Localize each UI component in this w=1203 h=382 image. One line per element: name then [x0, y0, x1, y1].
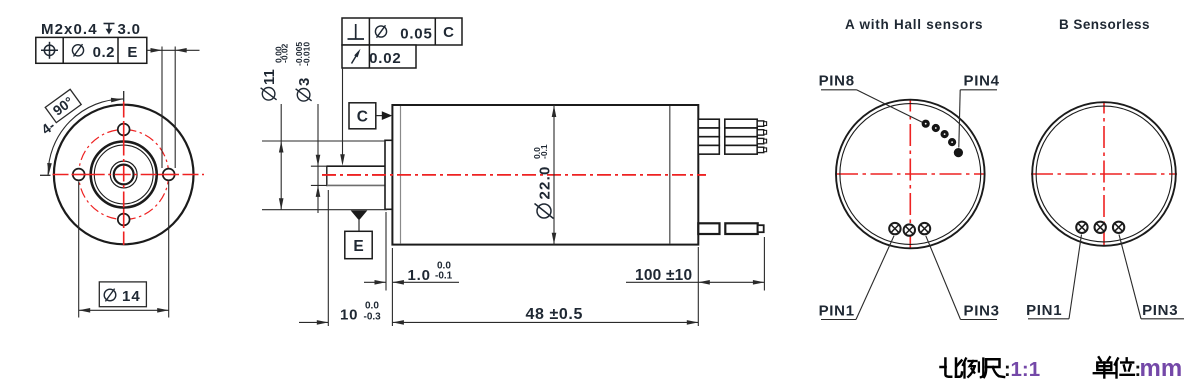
svg-text:0.2: 0.2: [93, 44, 115, 61]
⌀11 extension line top: [262, 140, 385, 142]
motor body ⌀22 x 48: [392, 105, 698, 245]
shaft boss circle: [110, 161, 137, 188]
datum E box: [345, 231, 372, 258]
svg-text:E: E: [353, 238, 363, 255]
position symbol: [41, 42, 58, 59]
flange outer circle ⌀22: [54, 105, 194, 245]
front boss ⌀11 x 1.0: [385, 140, 392, 209]
⌀3 extension line bottom: [311, 184, 327, 186]
svg-text:C: C: [443, 24, 454, 41]
view B outer circle: [1032, 102, 1176, 246]
side view red centerline: [322, 174, 706, 176]
⌀11 dimension line: [280, 104, 282, 210]
red dash through left hole: [72, 174, 87, 176]
⌀14 extension line right: [168, 182, 170, 318]
svg-text:-0.010: -0.010: [301, 42, 311, 66]
svg-text:10: 10: [340, 306, 358, 323]
svg-text:0.02: 0.02: [369, 50, 401, 67]
hole extension line right: [174, 47, 176, 169]
flange front view: red vertical centerline: [123, 102, 125, 246]
label 4-90 deg rotated box: [32, 89, 85, 137]
1.0 dim left segment: [364, 281, 386, 283]
⌀3 arrow bottom (outside): [316, 185, 321, 197]
leader line from frame to hole: [147, 49, 200, 51]
hole extension line left: [161, 47, 163, 169]
wire end extension line: [763, 237, 765, 291]
10 dim arrow (outside left): [317, 320, 329, 325]
svg-text:22.0: 22.0: [537, 166, 554, 200]
1.0 dim arrow left (outside): [375, 280, 387, 285]
⌀3 extension line top: [311, 165, 327, 167]
svg-text:B Sensorless: B Sensorless: [1059, 17, 1150, 32]
runout leader arrow: [340, 154, 345, 166]
mounting hole top (M2): [118, 124, 130, 136]
svg-text:0.0: 0.0: [365, 300, 379, 311]
⌀14 text box: [99, 282, 146, 307]
body right extension line: [697, 247, 699, 326]
svg-text:PIN8: PIN8: [819, 73, 855, 90]
⌀11 extension line bottom: [262, 209, 387, 211]
hall sensor pins PIN8..PIN4: [922, 120, 930, 128]
footer scale label 比例尺: [941, 359, 963, 377]
⌀22 arrow top: [552, 106, 557, 118]
view B phase pins PIN1-PIN3: [1076, 222, 1087, 233]
1.0 dim arrow right (outside): [392, 280, 404, 285]
mounting hole right (M2): [163, 169, 175, 181]
48 arrow left: [392, 320, 404, 325]
tolerance value 0.2 with diameter symbol: [72, 44, 83, 56]
svg-text:M2x0.4: M2x0.4: [41, 21, 98, 38]
datum C triangle: [382, 111, 392, 120]
mounting hole left (M2): [73, 169, 85, 181]
svg-text:-0.3: -0.3: [364, 311, 382, 322]
position feature control frame: [36, 37, 147, 63]
view A phase pins PIN1-PIN3: [889, 223, 900, 234]
svg-text:-0.1: -0.1: [539, 144, 549, 159]
svg-text:1:1: 1:1: [1011, 358, 1041, 381]
svg-text:PIN1: PIN1: [1026, 302, 1062, 319]
flange front view: red horizontal centerline: [53, 174, 205, 176]
svg-text:3: 3: [296, 78, 313, 86]
leader arrow left: [151, 48, 163, 53]
shaft tip extension line: [327, 190, 329, 326]
red dash through top hole: [123, 123, 125, 138]
⌀22 dimension line: [553, 105, 555, 245]
48 arrow right: [687, 320, 699, 325]
⌀3 dimension line: [317, 104, 319, 213]
view B red horizontal centerline: [1031, 173, 1177, 175]
⌀14 arrow left: [79, 308, 91, 313]
leader arrow right: [175, 48, 187, 53]
runout leader line: [342, 68, 344, 158]
mounting hole bottom (M2): [118, 214, 130, 226]
⌀3 arrow top (outside): [316, 155, 321, 167]
motor shaft top edge: [327, 165, 386, 167]
svg-text:-0.1: -0.1: [435, 271, 453, 282]
48 dimension line: [392, 321, 698, 323]
red dash through bottom hole: [123, 213, 125, 228]
side view red centerline overdraw: [322, 174, 706, 176]
svg-text:PIN3: PIN3: [964, 303, 1000, 320]
svg-text:-0.02: -0.02: [279, 43, 289, 63]
hub outer circle: [91, 142, 157, 208]
view A inner circle: [840, 104, 981, 245]
red dash through right hole: [162, 174, 177, 176]
svg-text:3.0: 3.0: [118, 21, 141, 38]
angle arc left tick: [40, 174, 51, 176]
motor shaft bottom edge: [327, 184, 386, 186]
shaft circle ⌀3: [114, 165, 134, 185]
angle arc arrow at left: [47, 163, 52, 175]
⌀3 text rotated: [294, 42, 313, 101]
view A outer circle: [836, 100, 985, 249]
100±10 text leader line: [626, 281, 698, 283]
datum C box: [349, 103, 376, 129]
svg-text:mm: mm: [1140, 355, 1183, 382]
motor shaft end face: [326, 166, 328, 187]
hub inner circle: [94, 145, 153, 204]
boss extension line left (1.0 dim): [385, 212, 387, 291]
100±10 dimension line: [698, 281, 764, 283]
body front extension line: [391, 248, 393, 326]
motor body inner line near front: [400, 106, 402, 244]
100±10 arrow left: [698, 280, 710, 285]
footer unit label 单位: [1094, 357, 1115, 377]
⌀22 arrow bottom: [552, 233, 557, 245]
datum E stem: [358, 220, 360, 231]
svg-text:PIN1: PIN1: [819, 303, 855, 320]
view B inner circle: [1036, 106, 1172, 242]
circular runout frame 0.02: [342, 45, 416, 68]
svg-text:C: C: [357, 109, 368, 126]
angle dimension arc: [48, 99, 124, 176]
svg-text:PIN3: PIN3: [1142, 302, 1178, 319]
100±10 arrow right: [753, 280, 765, 285]
svg-text:100 ±10: 100 ±10: [635, 267, 692, 284]
⌀11 arrow bottom: [279, 198, 284, 210]
⌀14 arrow right: [157, 308, 169, 313]
datum E triangle: [351, 210, 368, 220]
svg-text:A with Hall sensors: A with Hall sensors: [845, 17, 983, 32]
view B red vertical centerline: [1103, 102, 1105, 247]
1.0 dim right segment: [392, 281, 459, 283]
svg-text:0.05: 0.05: [400, 25, 432, 42]
view A red horizontal centerline: [836, 173, 985, 175]
red center cross over hub: [89, 174, 159, 176]
angle arc top tick: [123, 91, 125, 102]
⌀11 arrow top: [279, 141, 284, 153]
view A red vertical centerline: [909, 100, 911, 249]
svg-text:E: E: [127, 44, 137, 61]
svg-text:1.0: 1.0: [408, 267, 431, 284]
svg-text:PIN4: PIN4: [964, 73, 1000, 90]
perpendicularity frame ⊥ ⌀0.05 C: [342, 18, 462, 45]
svg-text:14: 14: [122, 288, 141, 305]
svg-text:11: 11: [261, 69, 278, 85]
⌀11 text rotated: [261, 43, 290, 100]
datum C leader: [376, 115, 384, 117]
10 dim left segment: [299, 321, 328, 323]
⌀14 extension line left: [78, 182, 80, 318]
⌀22 text rotated: [532, 144, 553, 218]
svg-text:48 ±0.5: 48 ±0.5: [526, 306, 583, 323]
motor body end cap line: [669, 106, 671, 244]
⌀14 dimension line: [79, 309, 169, 311]
lead wire bottom pair: [698, 223, 719, 234]
flange bolt circle (red dash-dot): [79, 130, 169, 220]
angle arc arrow at top: [111, 98, 123, 103]
lead wires top (4 hall/phase wires with pins): [698, 119, 719, 128]
